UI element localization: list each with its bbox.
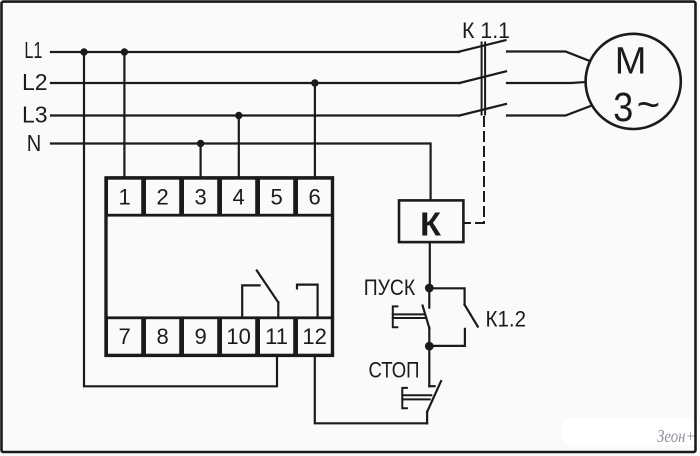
svg-text:6: 6 bbox=[308, 184, 320, 209]
terminal 1 bbox=[107, 178, 143, 216]
svg-text:2: 2 bbox=[156, 184, 168, 209]
svg-text:К1.2: К1.2 bbox=[486, 306, 527, 331]
relay module outline bbox=[106, 178, 333, 355]
label K 1.1 bbox=[462, 18, 510, 43]
svg-text:4: 4 bbox=[232, 184, 244, 209]
wire pole 1 to motor bbox=[507, 52, 591, 62]
internal relay contact blade bbox=[257, 271, 279, 303]
svg-text:Зеон+: Зеон+ bbox=[657, 426, 696, 446]
label L3 bbox=[22, 102, 48, 128]
contact K1.2 lower leg bbox=[429, 329, 465, 346]
junction dot L1-left bbox=[80, 48, 87, 55]
coil K box bbox=[399, 200, 463, 242]
svg-text:СТОП: СТОП bbox=[369, 357, 420, 382]
wire N to terminal 3 bbox=[200, 144, 202, 178]
motor M 3~ bbox=[586, 34, 681, 130]
watermark text bbox=[657, 426, 696, 446]
terminal 8 bbox=[145, 318, 181, 356]
terminal 11 bbox=[259, 318, 295, 356]
svg-text:7: 7 bbox=[118, 324, 130, 349]
label N bbox=[27, 130, 42, 156]
wire pole 2 to motor bbox=[507, 82, 586, 83]
node B junction dot bbox=[425, 342, 434, 351]
svg-text:N: N bbox=[27, 130, 42, 156]
watermark background strip bbox=[562, 418, 700, 445]
svg-text:3: 3 bbox=[194, 184, 206, 209]
svg-text:11: 11 bbox=[265, 324, 288, 349]
node A junction dot bbox=[425, 284, 434, 293]
terminal 5 bbox=[259, 178, 295, 216]
wire L1 branch down left side to terminal 11 bbox=[84, 52, 277, 386]
svg-text:9: 9 bbox=[194, 324, 206, 349]
label ПУСК bbox=[364, 275, 416, 300]
svg-text:L1: L1 bbox=[24, 37, 42, 63]
wire L3 to terminal 4 bbox=[238, 116, 240, 178]
svg-text:8: 8 bbox=[156, 324, 168, 349]
terminal 2 bbox=[145, 178, 181, 216]
wire L2 to terminal 6 bbox=[314, 83, 316, 178]
svg-text:1: 1 bbox=[118, 184, 130, 209]
terminal 12 bbox=[297, 318, 333, 356]
svg-text:M: M bbox=[615, 41, 647, 83]
contact K1.2 upper leg bbox=[429, 288, 464, 304]
dashed mechanical link to coil K bbox=[465, 117, 484, 223]
wire coil K to node A bbox=[429, 242, 431, 288]
node L2 (phase rail wire) bbox=[51, 82, 460, 84]
svg-text:L2: L2 bbox=[22, 69, 48, 95]
junction dot N-terminal3 bbox=[197, 140, 204, 147]
svg-text:L3: L3 bbox=[22, 102, 48, 128]
wire L1 to terminal 1 bbox=[123, 52, 125, 178]
node L3 (phase rail wire) bbox=[51, 114, 460, 116]
svg-text:К 1.1: К 1.1 bbox=[462, 18, 510, 43]
label L2 bbox=[22, 69, 48, 95]
label L1 bbox=[24, 37, 42, 63]
svg-text:5: 5 bbox=[270, 184, 282, 209]
internal relay contact terminal-10 leg bbox=[242, 285, 259, 317]
push button ПУСК lower wire bbox=[428, 328, 430, 346]
node L1 (phase rail wire) bbox=[51, 51, 459, 53]
junction dot L1-terminal1 bbox=[121, 48, 128, 55]
push button СТОП lower wire bbox=[426, 412, 428, 423]
push button СТОП actuator bracket bbox=[402, 388, 431, 408]
contactor K1.1 blade pole 1 bbox=[459, 40, 506, 52]
push button СТОП blade bbox=[427, 381, 441, 412]
push button СТОП upper wire bbox=[428, 346, 430, 386]
contactor K1.1 blade pole 3 bbox=[460, 104, 507, 116]
svg-text:3: 3 bbox=[613, 84, 633, 130]
svg-text:ПУСК: ПУСК bbox=[364, 275, 416, 300]
svg-text:К: К bbox=[420, 206, 442, 243]
label K1.2 bbox=[486, 306, 527, 331]
junction dot L3-terminal4 bbox=[235, 112, 242, 119]
svg-text:12: 12 bbox=[302, 324, 326, 349]
terminal 4 bbox=[221, 178, 257, 216]
wire pole 3 to motor bbox=[507, 106, 591, 116]
label СТОП bbox=[369, 357, 420, 382]
terminal 10 bbox=[221, 318, 257, 356]
node N (neutral rail wire to coil K) bbox=[51, 144, 431, 201]
contact K1.2 blade bbox=[465, 305, 478, 327]
junction dot L2-terminal6 bbox=[311, 79, 318, 86]
push button ПУСК upper wire bbox=[428, 288, 430, 308]
terminal 7 bbox=[107, 318, 143, 356]
internal relay contact terminal-11 leg bbox=[277, 302, 279, 317]
contactor K1.1 blade pole 2 bbox=[460, 71, 507, 83]
push button ПУСК actuator bracket bbox=[393, 306, 425, 327]
push button СТОП fixed contact tick bbox=[429, 385, 434, 387]
terminal 6 bbox=[297, 178, 333, 216]
internal relay contact terminal-12 hook bbox=[297, 285, 318, 317]
push button ПУСК blade bbox=[423, 306, 430, 328]
svg-text:10: 10 bbox=[226, 324, 250, 349]
svg-text:~: ~ bbox=[637, 83, 660, 127]
terminal 9 bbox=[183, 318, 219, 356]
contactor K1.1 linkage bar bbox=[482, 43, 486, 115]
terminal 3 bbox=[183, 178, 219, 216]
wire terminal 12 to СТОП bottom bbox=[315, 355, 427, 423]
